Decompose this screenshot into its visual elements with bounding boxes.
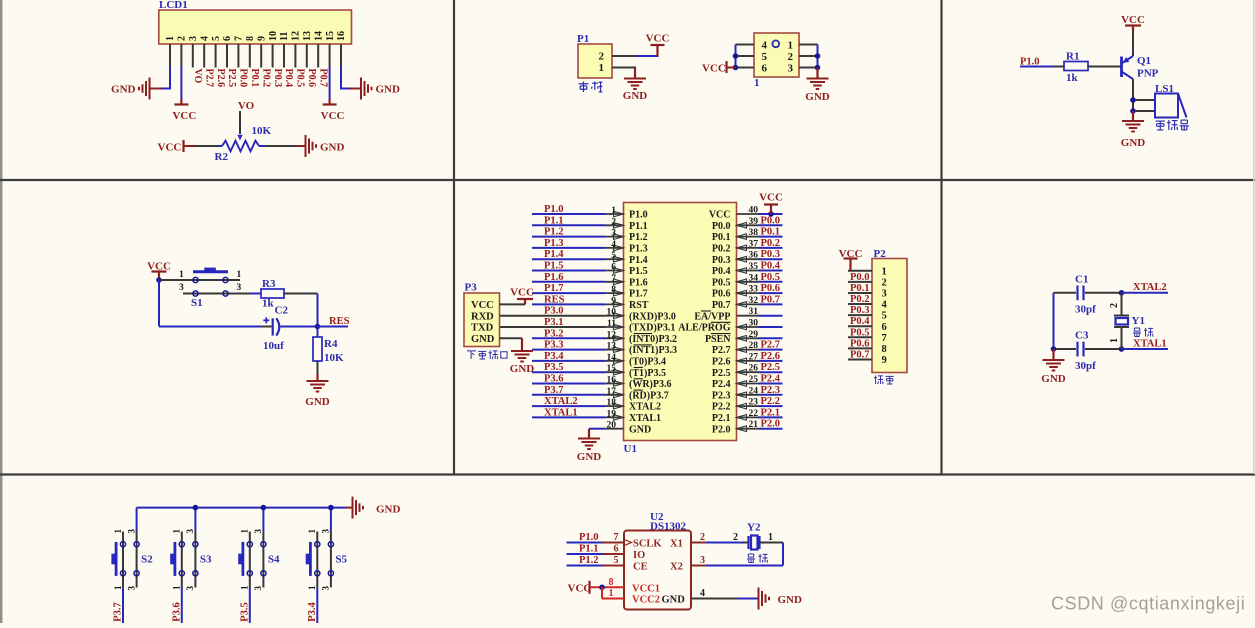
wire VCC to U2 VCC2 <box>602 587 624 598</box>
label VCC (reset) <box>147 261 171 273</box>
U2 pin name CE <box>633 562 648 573</box>
frame divider vertical right <box>940 0 942 475</box>
crystal Y1 plate top <box>1114 315 1129 317</box>
svg-text:1: 1 <box>609 588 614 599</box>
designator LS1 <box>1155 83 1174 95</box>
net label P0.3 (P2 pin 5) <box>850 305 870 316</box>
wire S3 to P3.6 <box>181 588 183 624</box>
U1 pin name P2.2 <box>712 402 731 413</box>
U1 pin 39 wire <box>759 224 783 226</box>
S5 pole line left <box>316 532 318 588</box>
U1 pin 24 arrow <box>737 392 747 398</box>
svg-text:P2.0: P2.0 <box>712 424 731 435</box>
svg-text:4: 4 <box>700 588 705 599</box>
U1 pin name P0.5 <box>712 277 731 288</box>
wire crystal GND <box>1052 349 1054 360</box>
U1 pin 37 arrow <box>737 245 747 251</box>
U1 pin 25 stub <box>737 383 759 385</box>
MCU U1 body <box>624 203 737 441</box>
wire Y1 top <box>1121 293 1123 316</box>
LCD1 pin 14 wire <box>317 44 319 68</box>
wire U1 row 18 <box>532 405 605 407</box>
U1 pin 40 stub <box>737 213 759 215</box>
wire R3 to corner <box>284 293 318 295</box>
U1 pin number 7 <box>611 274 616 284</box>
S2 pole line left <box>122 532 124 588</box>
wire Y2 to X2 <box>706 543 783 566</box>
label dianyuan (power) <box>579 82 603 92</box>
svg-text:P1.0: P1.0 <box>629 210 648 221</box>
svg-text:P1.6: P1.6 <box>629 277 648 288</box>
wire S5 to P3.4 <box>316 588 318 624</box>
S4 pin label 1 bottom <box>240 585 250 590</box>
svg-text:P2.0: P2.0 <box>761 419 781 430</box>
svg-text:XTAL2: XTAL2 <box>544 396 578 407</box>
svg-text:6: 6 <box>882 322 887 333</box>
net label P0.2 (U1 pin 37) <box>761 238 781 249</box>
svg-text:P3.3: P3.3 <box>544 340 564 351</box>
svg-text:3: 3 <box>321 586 331 591</box>
svg-text:RXD: RXD <box>471 311 494 322</box>
wire S1 row3 <box>183 293 249 295</box>
svg-text:C2: C2 <box>275 305 289 317</box>
P2 pin number 6 <box>882 322 887 333</box>
wire VCC down to S1 <box>158 272 160 281</box>
net label P0.1 (U1 pin 38) <box>761 227 781 238</box>
U1 pin 38 stub <box>737 236 759 238</box>
svg-text:P3.4: P3.4 <box>544 351 564 362</box>
potentiometer R2 zigzag <box>222 141 259 152</box>
wire U1 row 17 <box>532 394 605 396</box>
svg-text:(RD)P3.7: (RD)P3.7 <box>629 390 669 401</box>
net label P2.2 (U1 pin 23) <box>761 396 781 407</box>
U2 pin number 1 <box>609 588 614 599</box>
wire block pin5 left <box>736 55 755 57</box>
P2 pin 1 wire <box>848 270 872 272</box>
svg-text:11: 11 <box>607 319 616 329</box>
label VCC (Q1) <box>1121 14 1145 26</box>
svg-text:P0.3: P0.3 <box>761 249 781 260</box>
svg-text:30pf: 30pf <box>1075 304 1096 316</box>
net label P0.0 (LCD1 pin 7) <box>238 69 249 88</box>
wire U1 pin20 to GND <box>589 429 605 438</box>
Y1 pin number 2 <box>1109 303 1120 308</box>
LCD1 pin number 14 <box>313 31 324 41</box>
wire U1 row 15 <box>532 371 605 373</box>
net label P1.3 (U1 pin 4) <box>544 238 564 249</box>
P2 pin 2 wire <box>848 281 872 283</box>
junction block left pin5 <box>733 53 739 59</box>
svg-text:P1.5: P1.5 <box>629 266 648 277</box>
svg-text:GND: GND <box>629 424 651 435</box>
LCD1 pin number 1 <box>165 36 176 41</box>
U1 pin name P1.1 <box>629 221 648 232</box>
label PNP <box>1137 68 1159 80</box>
LCD1 pin 5 wire <box>215 44 217 68</box>
label VCC (block) <box>702 63 726 75</box>
P2 pin number 8 <box>882 344 887 355</box>
svg-text:RST: RST <box>629 300 649 311</box>
U1 pin number 24 <box>749 386 759 396</box>
net label XTAL1 <box>1133 339 1167 350</box>
svg-text:1: 1 <box>113 529 123 534</box>
wire LCD1 pin16 to GND <box>341 44 361 89</box>
svg-text:P0.6: P0.6 <box>761 283 781 294</box>
designator C2 <box>275 305 289 317</box>
S2 pin label 1 top <box>113 529 123 534</box>
U1 pin 26 arrow <box>737 369 747 375</box>
svg-text:15: 15 <box>325 31 336 41</box>
U1 pin number 4 <box>611 240 616 250</box>
wire C3 to XTAL1 junction <box>1085 348 1122 350</box>
LCD1 pin number 9 <box>256 36 267 41</box>
label GND (U2) <box>778 594 803 606</box>
svg-text:GND: GND <box>510 363 535 375</box>
wire VCC to block <box>727 67 736 69</box>
S1 pin label 3 left <box>179 283 184 293</box>
S1 contact circle 3a <box>193 291 198 296</box>
block pin number 1 <box>788 40 794 52</box>
svg-text:P3.6: P3.6 <box>544 374 564 385</box>
P2 pin 7 wire <box>848 336 872 338</box>
label GND (buttons) <box>376 504 401 516</box>
svg-text:P3.5: P3.5 <box>544 362 564 373</box>
wire XTAL2 <box>1122 292 1169 294</box>
S4 pin label 1 top <box>240 529 250 534</box>
crystal Y2 body <box>751 536 758 550</box>
wire U1 row 10 to P3 <box>500 315 606 317</box>
block pin number 4 <box>762 40 768 52</box>
U1 pin name XTAL2 <box>629 402 661 413</box>
svg-text:P0.1: P0.1 <box>249 69 260 88</box>
svg-text:9: 9 <box>882 355 887 366</box>
svg-text:12: 12 <box>607 330 617 340</box>
U1 pin name P2.4 <box>712 379 731 390</box>
U1 pin number 32 <box>749 296 759 306</box>
svg-text:P1.2: P1.2 <box>544 227 564 238</box>
net label P0.6 (P2 pin 8) <box>850 338 870 349</box>
svg-text:P3.5: P3.5 <box>239 602 250 622</box>
junction block right pin3 <box>815 65 821 71</box>
svg-text:6: 6 <box>762 63 768 75</box>
svg-text:VO: VO <box>192 69 203 84</box>
svg-text:S3: S3 <box>200 554 212 566</box>
svg-text:Y2: Y2 <box>747 522 761 534</box>
U1 pin number 14 <box>607 353 617 363</box>
U1 pin 35 arrow <box>737 268 747 274</box>
junction rail S5 <box>328 505 334 511</box>
svg-text:16: 16 <box>336 31 347 41</box>
wire VCC down left branch <box>158 280 160 327</box>
svg-text:24: 24 <box>749 386 759 396</box>
svg-text:10: 10 <box>607 308 617 318</box>
U1 pin number 10 <box>607 308 617 318</box>
U1 pin 13 arrow <box>614 347 624 353</box>
label DS1302 <box>650 521 687 533</box>
svg-text:3: 3 <box>253 586 263 591</box>
P3 pin name VCC <box>471 300 494 311</box>
wire left to C2 <box>159 326 272 328</box>
U1 pin 28 stub <box>737 349 759 351</box>
svg-text:P0.2: P0.2 <box>761 238 781 249</box>
U2 pin 4 stub and wire <box>691 598 758 600</box>
svg-text:6: 6 <box>614 544 619 555</box>
svg-text:VO: VO <box>238 100 255 112</box>
S4 pin label 3 top <box>253 529 263 534</box>
svg-text:3: 3 <box>237 283 242 293</box>
svg-text:3: 3 <box>611 229 616 239</box>
net label P0.0 (U1 pin 39) <box>761 215 781 226</box>
svg-text:3: 3 <box>126 529 136 534</box>
svg-text:VCC: VCC <box>471 300 494 311</box>
U1 pin name P0.6 <box>712 289 731 300</box>
net label P0.6 (U1 pin 33) <box>761 283 781 294</box>
designator Q1 <box>1137 55 1151 67</box>
LCD1 pin number 16 <box>336 31 347 41</box>
S3 pin label 3 bottom <box>185 586 195 591</box>
svg-text:15: 15 <box>607 364 617 374</box>
S3 pole line left <box>181 532 183 588</box>
power port VCC (LCD pin2) <box>174 103 188 105</box>
svg-text:21: 21 <box>749 420 759 430</box>
frame left edge <box>0 0 2 623</box>
svg-text:P2.7: P2.7 <box>203 69 214 88</box>
net label P1.2 (U1 pin 3) <box>544 227 564 238</box>
U1 pin number 30 <box>749 319 759 329</box>
wire button GND rail <box>137 507 346 509</box>
P3 pin name GND <box>471 334 495 345</box>
U1 pin 22 wire <box>759 416 783 418</box>
designator C3 <box>1075 330 1089 342</box>
svg-text:30pf: 30pf <box>1075 360 1096 372</box>
svg-text:39: 39 <box>749 217 759 227</box>
wire VO to R2 wiper <box>239 111 241 134</box>
junction RES <box>315 324 321 330</box>
svg-text:1: 1 <box>237 270 242 280</box>
U2 pin 7 stub <box>603 542 625 544</box>
svg-text:U1: U1 <box>624 443 637 455</box>
svg-text:ALE/PROG: ALE/PROG <box>678 323 730 334</box>
svg-text:8: 8 <box>611 285 616 295</box>
junction XTAL1 <box>1119 346 1125 352</box>
svg-text:P3.0: P3.0 <box>544 306 564 317</box>
U1 pin number 37 <box>749 239 759 249</box>
svg-text:VCC: VCC <box>510 287 534 299</box>
P2 pin number 7 <box>882 333 887 344</box>
crystal Y1 body <box>1116 318 1129 325</box>
net label XTAL2 <box>1133 282 1167 293</box>
svg-text:P1.1: P1.1 <box>629 221 648 232</box>
svg-text:6: 6 <box>222 36 233 41</box>
net label P2.4 (U1 pin 25) <box>761 374 781 385</box>
svg-text:P1.3: P1.3 <box>629 244 648 255</box>
U1 pin 16 arrow <box>614 381 624 387</box>
U1 pin name P2.3 <box>712 390 731 401</box>
U1 pin 26 stub <box>737 371 759 373</box>
LCD1 pin number 13 <box>302 31 313 41</box>
wire S4 right pole to rail <box>262 508 264 532</box>
U1 pin 10 stub <box>605 315 624 317</box>
svg-text:P0.3: P0.3 <box>850 305 870 316</box>
U2 pin 6 stub <box>603 553 625 555</box>
svg-text:GND: GND <box>662 595 686 606</box>
wire VCC to P2 pin1 <box>849 259 851 271</box>
wire block to GND <box>816 68 818 79</box>
label xiazaijiekou (download port) <box>467 350 507 359</box>
U1 pin 18 stub <box>605 405 624 407</box>
U1 pin 34 stub <box>737 281 759 283</box>
wire VCC stub U1 pin40 <box>770 205 772 214</box>
wire to buzzer pin1 <box>1135 99 1155 101</box>
svg-text:VCC: VCC <box>646 33 670 45</box>
U1 pin number 20 <box>607 421 617 431</box>
U2 pin name GND <box>662 595 686 606</box>
U2 pin name IO <box>633 550 645 561</box>
U1 pin 6 stub <box>605 270 624 272</box>
frame divider vertical left <box>453 0 455 475</box>
svg-text:P3.2: P3.2 <box>544 328 564 339</box>
U1 pin number 23 <box>749 398 759 408</box>
wire block pin4 left <box>736 44 755 46</box>
net label P2.7 (U1 pin 28) <box>761 340 781 351</box>
LCD1 pin 12 wire <box>294 44 296 68</box>
value 10K (R4) <box>324 352 344 364</box>
U1 pin name P1.5 <box>629 266 648 277</box>
net label VO (LCD1 pin 3) <box>192 69 203 84</box>
wire X1 to Y2 <box>706 542 748 544</box>
net label P3.2 (U1 pin 12) <box>544 328 564 339</box>
U1 pin name P2.5 <box>712 368 731 379</box>
label GND (U1) <box>577 451 602 463</box>
svg-text:13: 13 <box>302 31 313 41</box>
P2 pin 9 wire <box>848 358 872 360</box>
S3 pole line right <box>194 532 196 588</box>
svg-text:P0.4: P0.4 <box>761 261 781 272</box>
svg-text:CSDN @cqtianxingkeji: CSDN @cqtianxingkeji <box>1051 594 1245 614</box>
U1 pin 7 arrow <box>614 279 624 285</box>
svg-text:P0.5: P0.5 <box>712 277 731 288</box>
svg-text:P1.5: P1.5 <box>544 261 564 272</box>
U1 pin name (WR)P3.6 <box>629 379 672 390</box>
svg-text:P0.1: P0.1 <box>850 283 870 294</box>
LCD1 pin 7 wire <box>237 44 239 68</box>
svg-text:2: 2 <box>882 277 887 288</box>
svg-text:1: 1 <box>113 585 123 590</box>
svg-text:P0.0: P0.0 <box>238 69 249 88</box>
svg-text:P0.5: P0.5 <box>850 327 870 338</box>
U1 pin number 19 <box>607 409 617 419</box>
wire U1 row 3 <box>532 236 605 238</box>
net label P3.3 (U1 pin 13) <box>544 340 564 351</box>
wire U1 row 12 <box>532 337 605 339</box>
S5 contact circles bottom <box>315 571 334 576</box>
svg-text:PSEN: PSEN <box>705 334 731 345</box>
label VCC (LCD pin2) <box>172 110 196 122</box>
wire block left bus <box>735 45 737 68</box>
svg-text:34: 34 <box>749 273 759 283</box>
wire RES stub <box>318 326 349 328</box>
net label P0.2 (P2 pin 4) <box>850 294 870 305</box>
label jingzhen (crystal Y2) <box>747 554 768 563</box>
label VCC (P2) <box>839 248 863 260</box>
net label P1.6 (U1 pin 7) <box>544 272 564 283</box>
LCD1 pin 11 wire <box>283 44 285 68</box>
svg-text:R1: R1 <box>1066 51 1079 63</box>
wire VCC to Q1 emitter <box>1132 26 1134 57</box>
U1 pin 7 stub <box>605 281 624 283</box>
net label P0.1 (LCD1 pin 8) <box>249 69 260 88</box>
wire Y1 bottom <box>1121 327 1123 349</box>
LCD1 pin 10 wire <box>272 44 274 68</box>
U1 pin 34 wire <box>759 281 783 283</box>
Y2 pin number 1 <box>768 532 773 543</box>
Y1 pin number 1 <box>1109 338 1120 343</box>
svg-text:PNP: PNP <box>1137 68 1159 80</box>
svg-text:4: 4 <box>611 240 616 250</box>
wire U1 row 6 <box>532 270 605 272</box>
svg-text:30: 30 <box>749 319 759 329</box>
U1 pin name (RXD)P3.0 <box>629 311 676 322</box>
wire R4 to GND <box>317 361 319 381</box>
wire Q1 collector down <box>1132 79 1134 111</box>
svg-text:GND: GND <box>376 84 401 96</box>
svg-text:25: 25 <box>749 375 759 385</box>
wire U1 row 19 <box>532 416 605 418</box>
S1 pin label 3 right <box>237 283 242 293</box>
ground symbol LCD pin16 <box>361 78 372 100</box>
U1 pin number 16 <box>607 376 617 386</box>
U1 pin name P0.0 <box>712 221 731 232</box>
svg-text:XTAL2: XTAL2 <box>1133 282 1167 293</box>
wire LCD1 pin15 to VCC <box>329 44 331 105</box>
U1 pin name P1.4 <box>629 255 648 266</box>
buzzer LS1 body <box>1155 94 1187 118</box>
LCD1 pin 9 wire <box>260 44 262 68</box>
svg-text:40: 40 <box>749 206 759 216</box>
U1 pin 34 arrow <box>737 279 747 285</box>
svg-text:P2.5: P2.5 <box>226 69 237 88</box>
label GND (LCD pin16) <box>376 84 401 96</box>
svg-text:P0.7: P0.7 <box>850 349 870 360</box>
svg-text:P0.1: P0.1 <box>761 227 781 238</box>
U1 pin number 22 <box>749 409 759 419</box>
wire junction to R4 <box>317 327 319 338</box>
R2 wiper arrow <box>237 135 242 141</box>
value 10uf (C2) <box>263 340 284 352</box>
wire left to C3 <box>1054 348 1077 350</box>
P3 pin name RXD <box>471 311 494 322</box>
S1 pin label 1 left <box>179 270 184 280</box>
svg-text:(WR)P3.6: (WR)P3.6 <box>629 379 672 390</box>
U1 pin 30 arrow <box>737 324 747 330</box>
svg-text:S4: S4 <box>268 554 280 566</box>
svg-text:P2.6: P2.6 <box>761 351 781 362</box>
svg-text:VCC2: VCC2 <box>632 595 660 606</box>
svg-text:9: 9 <box>256 36 267 41</box>
label GND (R2) <box>320 142 345 154</box>
S3 pin label 1 top <box>172 529 182 534</box>
U1 pin name P2.1 <box>712 413 731 424</box>
designator LCD1 <box>159 0 188 11</box>
U1 pin 14 arrow <box>614 358 624 364</box>
net label P1.0 (U1 pin 1) <box>544 204 564 215</box>
junction buzzer top <box>1130 97 1136 103</box>
junction rail S3 <box>193 505 199 511</box>
svg-text:P1.3: P1.3 <box>544 238 564 249</box>
S4 contact circles bottom <box>247 571 266 576</box>
connector LCD1 body <box>159 10 352 44</box>
U1 pin name PSEN <box>705 334 731 345</box>
